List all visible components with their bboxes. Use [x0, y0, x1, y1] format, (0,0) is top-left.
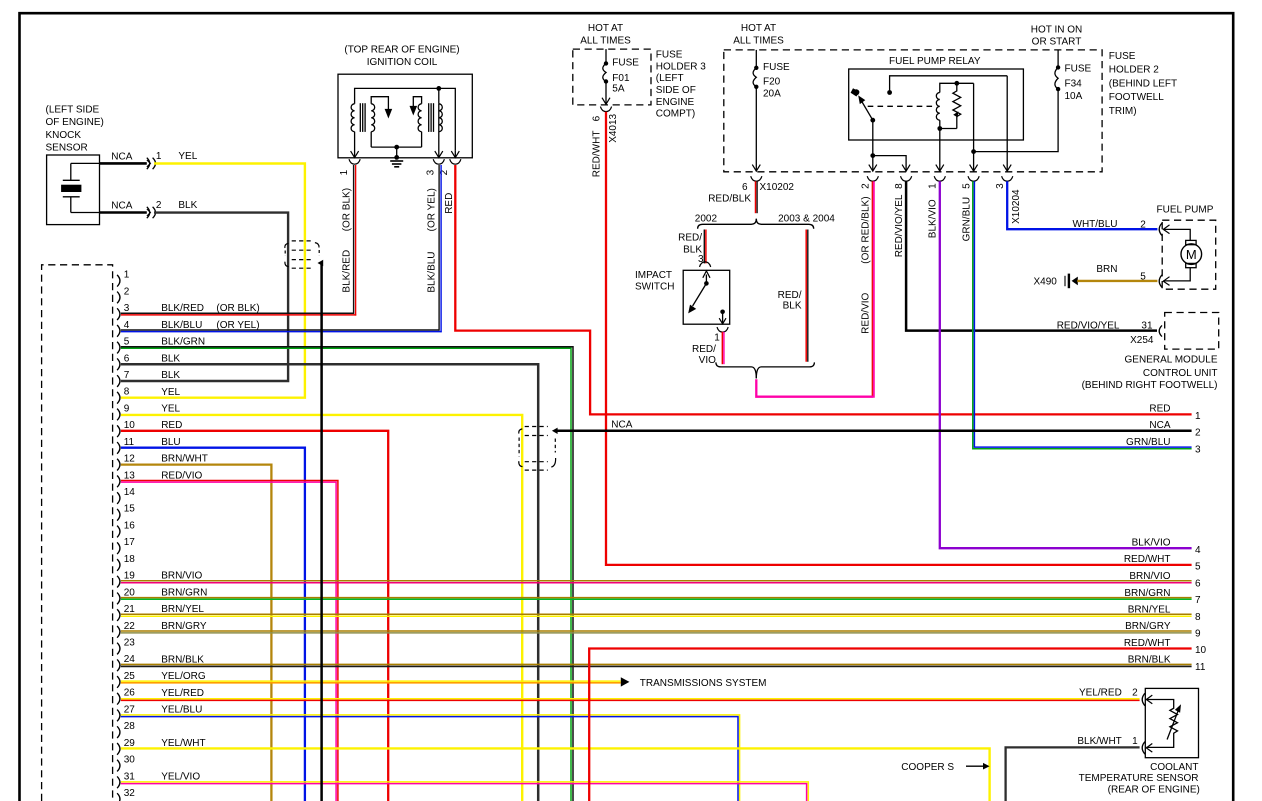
wire RED/VIO merge to relay pin2 wire [756, 379, 873, 397]
fuse F34 terminal dots [1056, 65, 1060, 69]
wire BLK/WHT coolant pin1 [1006, 747, 1140, 801]
svg-text:20: 20 [124, 587, 136, 598]
svg-text:RED/WHT: RED/WHT [1124, 638, 1171, 649]
svg-text:OR START: OR START [1032, 37, 1082, 48]
wire BRN/VIO row19 to module pin6 [121, 580, 1192, 582]
svg-text:1: 1 [1195, 411, 1201, 422]
svg-text:10: 10 [124, 420, 136, 431]
svg-text:(BEHIND RIGHT FOOTWELL): (BEHIND RIGHT FOOTWELL) [1082, 380, 1218, 391]
connector cup impact pin1 [717, 327, 728, 332]
fuse F01 bottom lead with arrow [605, 82, 607, 105]
connector pin 25 bracket [117, 676, 120, 688]
relay actuator dashed link [868, 105, 935, 107]
coil pin3 connector cup [433, 159, 444, 164]
svg-text:RED/: RED/ [778, 290, 802, 301]
svg-text:29: 29 [124, 738, 136, 749]
svg-text:20A: 20A [763, 89, 781, 100]
svg-text:(OR YEL): (OR YEL) [427, 188, 438, 231]
relay switch arm with arrowhead [862, 102, 873, 121]
svg-text:11: 11 [124, 437, 135, 448]
svg-text:11: 11 [1195, 662, 1206, 673]
svg-text:2: 2 [861, 183, 872, 189]
svg-text:YEL: YEL [178, 151, 197, 162]
svg-text:BLK: BLK [783, 300, 802, 311]
connector arcs knock pin1 [147, 158, 150, 169]
transmissions system arrow [621, 677, 630, 686]
connector pin 5 bracket [117, 342, 120, 354]
connector pin 20 bracket [117, 593, 120, 605]
svg-text:RED/VIO: RED/VIO [861, 292, 872, 333]
wire RED/VIO row13 [121, 481, 338, 801]
connector pin 13 bracket [117, 476, 120, 488]
connector pin 12 bracket [117, 459, 120, 471]
svg-text:HOT AT: HOT AT [588, 23, 623, 34]
year split brace [698, 219, 757, 229]
svg-text:SENSOR: SENSOR [46, 143, 88, 154]
svg-text:FUSE: FUSE [1065, 64, 1092, 75]
svg-text:BRN/BLK: BRN/BLK [1128, 655, 1171, 666]
svg-text:BRN/YEL: BRN/YEL [1128, 605, 1171, 616]
svg-text:2: 2 [124, 286, 130, 297]
svg-text:(OR BLK): (OR BLK) [341, 188, 352, 231]
connector pin 11 bracket [117, 442, 120, 454]
connector pin 23 bracket [117, 643, 120, 655]
svg-text:YEL: YEL [161, 404, 180, 415]
svg-text:1: 1 [156, 151, 162, 162]
svg-text:(BEHIND LEFT: (BEHIND LEFT [1109, 78, 1177, 89]
svg-text:30: 30 [124, 755, 136, 766]
svg-text:HOT AT: HOT AT [741, 23, 776, 34]
svg-text:BRN/GRY: BRN/GRY [1125, 621, 1171, 632]
svg-text:7: 7 [124, 370, 130, 381]
svg-text:BRN/GRN: BRN/GRN [1124, 588, 1170, 599]
relay pin1 lead arrow [939, 129, 941, 172]
wire YEL/RED row26 to coolant sensor pin2 [121, 698, 1140, 700]
svg-text:6: 6 [592, 115, 603, 121]
coil T2 primary top lead with arrow [413, 97, 421, 112]
fuel pump dashed box [1162, 220, 1216, 289]
svg-text:6: 6 [742, 182, 748, 193]
relay switch contact blob [853, 89, 859, 95]
svg-text:10A: 10A [1065, 91, 1083, 102]
svg-text:18: 18 [124, 554, 136, 565]
svg-text:BLK: BLK [161, 370, 180, 381]
knock sensor internal wire pin1 [71, 162, 100, 164]
svg-text:23: 23 [124, 638, 136, 649]
coolant pin1 bracket [1142, 742, 1145, 755]
connector pin 1 bracket [117, 275, 120, 287]
connector pin 18 bracket [117, 559, 120, 571]
wire NCA to module pin2 [557, 430, 1192, 433]
wire RED row10 [121, 431, 388, 801]
svg-text:(OR RED/BLK): (OR RED/BLK) [861, 196, 872, 263]
svg-text:YEL/BLU: YEL/BLU [161, 704, 202, 715]
svg-text:YEL/VIO: YEL/VIO [161, 771, 200, 782]
svg-text:8: 8 [1195, 612, 1201, 623]
svg-text:(LEFT SIDE: (LEFT SIDE [46, 104, 100, 115]
svg-text:BLK: BLK [178, 200, 197, 211]
svg-text:RED/: RED/ [678, 232, 702, 243]
svg-text:NCA: NCA [1149, 420, 1170, 431]
connector cup X4013 [600, 107, 611, 112]
connector pin 24 bracket [117, 659, 120, 671]
svg-text:RED/BLK: RED/BLK [708, 193, 751, 204]
svg-text:FUSE: FUSE [612, 58, 639, 69]
ignition coil box [338, 74, 472, 158]
svg-text:NCA: NCA [111, 200, 132, 211]
connector pin 22 bracket [117, 626, 120, 638]
svg-text:YEL/RED: YEL/RED [1079, 688, 1122, 699]
svg-text:1: 1 [714, 332, 720, 343]
svg-text:YEL/RED: YEL/RED [161, 688, 204, 699]
connector pin 17 bracket [117, 542, 120, 554]
coil bottom rail [371, 146, 421, 148]
svg-text:FUEL PUMP RELAY: FUEL PUMP RELAY [889, 56, 981, 67]
svg-text:GENERAL MODULE: GENERAL MODULE [1125, 354, 1218, 365]
svg-text:1: 1 [339, 169, 350, 175]
svg-text:ALL TIMES: ALL TIMES [580, 35, 631, 46]
svg-text:2: 2 [1195, 427, 1201, 438]
svg-text:ALL TIMES: ALL TIMES [733, 35, 784, 46]
svg-text:2: 2 [156, 200, 162, 211]
wire RED/BLK stub X10202 [755, 181, 757, 213]
connector pin 32 bracket [117, 793, 120, 801]
svg-text:BRN/YEL: BRN/YEL [161, 604, 204, 615]
svg-text:1: 1 [1129, 736, 1138, 747]
svg-text:3: 3 [124, 303, 130, 314]
relay pin2 lead [872, 120, 874, 155]
connector pin 16 bracket [117, 526, 120, 538]
svg-text:8: 8 [894, 183, 905, 189]
connector pin 10 bracket [117, 425, 120, 437]
wire BLK knock pin2 to row7 [121, 213, 288, 381]
wire BLK/BLU coil pin3 to row4 [438, 165, 440, 331]
svg-text:19: 19 [124, 571, 136, 582]
svg-text:TEMPERATURE SENSOR: TEMPERATURE SENSOR [1079, 773, 1199, 784]
svg-text:22: 22 [124, 621, 136, 632]
svg-text:21: 21 [124, 604, 136, 615]
ground symbol [390, 160, 403, 162]
knock sensor box [47, 155, 100, 225]
relay switch common dot [870, 118, 875, 123]
wire BLU row11 [121, 448, 305, 801]
connector pin 31 bracket [117, 776, 120, 788]
fuel pump pin2 bracket [1159, 223, 1162, 236]
svg-text:5A: 5A [612, 84, 625, 95]
svg-text:WHT/BLU: WHT/BLU [1073, 219, 1118, 230]
inline connector A dashed symbol [292, 240, 312, 242]
svg-text:24: 24 [124, 654, 136, 665]
svg-text:4: 4 [124, 320, 130, 331]
wire BLK/GRN row5 [121, 347, 573, 801]
svg-text:(TOP REAR OF ENGINE): (TOP REAR OF ENGINE) [344, 45, 459, 56]
svg-text:BLK/WHT: BLK/WHT [1077, 736, 1121, 747]
svg-text:COMPT): COMPT) [656, 109, 695, 120]
svg-text:SIDE OF: SIDE OF [656, 85, 696, 96]
svg-text:HOLDER 2: HOLDER 2 [1109, 65, 1159, 76]
fuse F01 top lead [605, 49, 607, 63]
svg-text:14: 14 [124, 487, 136, 498]
svg-text:4: 4 [1195, 545, 1201, 556]
svg-text:(LEFT: (LEFT [656, 73, 684, 84]
svg-text:RED/WHT: RED/WHT [592, 131, 603, 178]
coil T2 core [428, 103, 430, 132]
relay pin5 arrow [970, 165, 978, 172]
relay coil bottom lead [939, 120, 941, 128]
svg-text:6: 6 [1195, 578, 1201, 589]
svg-text:ENGINE: ENGINE [656, 97, 695, 108]
fuse F20 terminal dots [754, 66, 758, 70]
connector pin 28 bracket [117, 726, 120, 738]
svg-text:RED/: RED/ [692, 344, 716, 355]
connector cup X10204 [1002, 176, 1013, 181]
wire BLK/BLU row4 [121, 329, 439, 331]
knock sensor internal wire pin2 [71, 212, 100, 214]
fuse F01 element [603, 63, 606, 81]
fuse F34 lead to relay rail junction [974, 89, 1059, 152]
svg-text:F34: F34 [1065, 79, 1083, 90]
svg-text:27: 27 [124, 704, 136, 715]
relay pin5 junction dot [971, 149, 976, 154]
relay pin2 arrow [872, 156, 874, 172]
relay coil top lead [940, 83, 957, 92]
connector pin 29 bracket [117, 743, 120, 755]
svg-text:VIO: VIO [699, 355, 716, 366]
wire YEL row9 [121, 415, 522, 801]
wire RED/BLK 2003 branch [805, 230, 807, 362]
relay rail junction dot [887, 90, 892, 95]
fuel pump motor lead top [1163, 229, 1190, 240]
connector pin 30 bracket [117, 760, 120, 772]
svg-text:FUSE: FUSE [763, 62, 790, 73]
connector pin 6 bracket [117, 358, 120, 370]
svg-text:FUEL PUMP: FUEL PUMP [1157, 204, 1214, 215]
relay coil top junction dot [954, 81, 959, 86]
relay pin junction dot below box [870, 153, 875, 158]
connector pin 21 bracket [117, 609, 120, 621]
wire BLK/RED coil pin1 to row3 [353, 165, 355, 314]
wire YEL/VIO row31 [121, 782, 808, 801]
svg-text:GRN/BLU: GRN/BLU [961, 197, 972, 241]
coil pin3 lead arrow [438, 104, 440, 158]
fuel pump pin5 bracket [1159, 275, 1162, 288]
svg-text:BLK/VIO: BLK/VIO [928, 199, 939, 238]
svg-text:6: 6 [124, 353, 130, 364]
svg-text:OF ENGINE): OF ENGINE) [46, 117, 104, 128]
connector pin 4 bracket [117, 325, 120, 337]
wire RED/WHT F01 to module pin5 [606, 112, 1192, 565]
wire NCA knock pin1 [100, 162, 147, 165]
fuse holder 3 dashed box [573, 49, 651, 105]
relay pin5 rail [957, 82, 974, 84]
connector pin 7 bracket [117, 375, 120, 387]
wire RED/VIO impact pin1 [721, 332, 723, 364]
wire YEL/ORG row25 to transmissions system [121, 680, 621, 682]
svg-text:BRN/WHT: BRN/WHT [161, 454, 208, 465]
connector cup relay pin1 [934, 176, 945, 181]
svg-text:25: 25 [124, 671, 136, 682]
svg-text:31: 31 [1141, 320, 1153, 331]
connector pin 19 bracket [117, 576, 120, 588]
coil T1 secondary bottom lead [370, 132, 372, 147]
svg-text:M: M [1186, 247, 1197, 262]
svg-text:COOLANT: COOLANT [1150, 762, 1198, 773]
svg-text:12: 12 [124, 454, 136, 465]
svg-text:3: 3 [995, 183, 1006, 189]
svg-text:3: 3 [1195, 445, 1201, 456]
fuel pump motor [1186, 240, 1196, 244]
impact switch arm with arrowhead [693, 283, 707, 306]
impact switch pivot dot [704, 281, 709, 286]
wire BRN/BLK row24 to module pin11 [121, 663, 1192, 665]
svg-text:15: 15 [124, 504, 136, 515]
connector cup relay pin2 [867, 176, 878, 181]
svg-text:5: 5 [1195, 562, 1201, 573]
inline connector A splice arrow [318, 260, 324, 267]
coil pin1 connector cup [349, 159, 360, 164]
svg-text:(REAR OF ENGINE): (REAR OF ENGINE) [1108, 784, 1200, 795]
fuse F20 top lead [755, 50, 757, 68]
svg-text:YEL: YEL [161, 387, 180, 398]
svg-text:TRANSMISSIONS SYSTEM: TRANSMISSIONS SYSTEM [640, 678, 767, 689]
svg-text:16: 16 [124, 520, 136, 531]
svg-text:32: 32 [124, 788, 136, 799]
connector pin 26 bracket [117, 693, 120, 705]
coil top rail [355, 88, 456, 150]
impact switch box [683, 270, 730, 324]
svg-text:RED: RED [161, 420, 182, 431]
svg-text:X490: X490 [1034, 276, 1058, 287]
svg-text:BLK/VIO: BLK/VIO [1132, 538, 1171, 549]
wire NCA knock pin2 [100, 211, 147, 214]
svg-text:2: 2 [1129, 688, 1138, 699]
svg-text:2002: 2002 [695, 213, 718, 224]
connector cup X10202 [751, 176, 762, 181]
fuel pump motor lead bottom [1163, 268, 1190, 281]
svg-text:COOPER S: COOPER S [901, 762, 954, 773]
connector pin 27 bracket [117, 710, 120, 722]
svg-text:31: 31 [124, 771, 136, 782]
wire BLK/RED row3 [121, 312, 353, 314]
coil pin2 lead arrow [454, 150, 456, 158]
connector cup relay pin8 [901, 176, 912, 181]
wire BLK row6 [121, 364, 538, 801]
svg-text:IGNITION COIL: IGNITION COIL [367, 57, 438, 68]
wire YEL/BLU row27 [121, 715, 740, 801]
svg-text:X10202: X10202 [760, 182, 795, 193]
coolant sensor box [1145, 688, 1198, 757]
svg-text:2003 & 2004: 2003 & 2004 [778, 213, 835, 224]
svg-text:SWITCH: SWITCH [635, 282, 674, 293]
coil T1 primary winding [351, 104, 354, 132]
fuel pump relay box [849, 69, 1024, 140]
svg-text:BLK: BLK [161, 353, 180, 364]
wire BLK from inline connector A [320, 262, 323, 801]
general module pin31 bracket [1159, 325, 1162, 336]
relay coil winding [936, 93, 939, 121]
svg-text:RED/VIO/YEL: RED/VIO/YEL [1057, 320, 1120, 331]
knock sensor piezo element [70, 163, 72, 180]
svg-text:FUSE: FUSE [656, 49, 683, 60]
inline connector B dashed symbol [525, 426, 548, 428]
svg-text:BLK/BLU: BLK/BLU [427, 251, 438, 292]
splice symbol X490 [1064, 276, 1066, 286]
wire YEL/WHT row29 [121, 748, 990, 801]
svg-text:9: 9 [1195, 629, 1201, 640]
svg-text:HOT IN ON: HOT IN ON [1031, 24, 1082, 35]
relay pin5 lead [973, 83, 975, 171]
connector arcs knock pin2 [147, 207, 150, 218]
coolant thermistor [1146, 700, 1177, 748]
wire WHT/BLU X10204 to fuel pump pin2 [1007, 181, 1157, 229]
coil T1 secondary winding [371, 104, 374, 132]
wire BRN/YEL row21 to module pin8 [121, 613, 1192, 615]
connector pin 9 bracket [117, 409, 120, 421]
wire RED/BLK 2002 branch [703, 230, 705, 264]
coolant thermistor arrow [1167, 710, 1178, 740]
svg-text:RED/VIO/YEL: RED/VIO/YEL [894, 194, 905, 257]
svg-text:BRN/VIO: BRN/VIO [1129, 571, 1170, 582]
svg-text:CONTROL UNIT: CONTROL UNIT [1143, 368, 1218, 379]
fuse F34 top lead [1057, 50, 1059, 68]
svg-text:KNOCK: KNOCK [46, 130, 82, 141]
svg-text:TRIM): TRIM) [1109, 106, 1137, 117]
relay resistor [953, 83, 961, 128]
impact switch contact dot [720, 310, 725, 315]
svg-text:RED: RED [444, 193, 455, 214]
year merge brace [716, 362, 756, 378]
connector pin 8 bracket [117, 392, 120, 404]
connector pin 14 bracket [117, 492, 120, 504]
svg-text:NCA: NCA [611, 420, 632, 431]
connector cup relay pin5 [968, 176, 979, 181]
wire RED/VIO/YEL relay pin8 to X254 [906, 181, 1157, 330]
impact switch pin3 lead arrow [705, 275, 707, 284]
svg-text:RED/WHT: RED/WHT [1124, 554, 1171, 565]
svg-text:5: 5 [961, 183, 972, 189]
coil top junction dot [436, 86, 441, 91]
relay coil bottom junction dot [937, 126, 942, 131]
fuse F34 element [1055, 67, 1058, 89]
coolant pin2 bracket [1142, 693, 1145, 706]
svg-text:17: 17 [124, 537, 136, 548]
coil T2 primary bottom lead [421, 132, 423, 147]
svg-text:GRN/BLU: GRN/BLU [1126, 437, 1170, 448]
svg-text:FOOTWELL: FOOTWELL [1109, 92, 1164, 103]
wire GRN/BLU relay pin5 to module pin3 [973, 181, 1192, 449]
svg-text:7: 7 [1195, 595, 1201, 606]
svg-text:9: 9 [124, 403, 130, 414]
svg-text:X10204: X10204 [1011, 189, 1022, 224]
relay NC rail [890, 76, 1008, 93]
coil T2 secondary winding [439, 104, 442, 132]
svg-text:HOLDER 3: HOLDER 3 [656, 61, 706, 72]
svg-text:BRN/GRN: BRN/GRN [161, 587, 207, 598]
relay pin3 lead arrow [1006, 76, 1008, 172]
wire RED/WHT module pin10 continuation [589, 649, 1191, 801]
coil T2 primary winding [418, 104, 421, 132]
connector cup impact pin3 [700, 262, 711, 267]
svg-text:BRN/GRY: BRN/GRY [161, 621, 207, 632]
engine control connector dashed box [42, 265, 113, 801]
svg-text:BRN: BRN [1096, 264, 1117, 275]
coil pin2 connector cup [450, 159, 461, 164]
svg-text:X254: X254 [1130, 335, 1154, 346]
svg-text:RED: RED [1149, 404, 1170, 415]
general module dashed box [1165, 313, 1219, 350]
coil junction branch to pin3 [438, 88, 440, 103]
relay pin8 branch [873, 156, 906, 172]
